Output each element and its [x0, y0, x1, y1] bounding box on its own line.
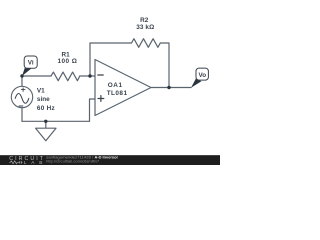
CircuitLab watermark capacitor [19, 161, 23, 164]
wire R1 to op-amp inverting input [80, 75, 95, 77]
wire V1 bottom to ground rail [21, 108, 23, 122]
V1 minus sign [19, 105, 23, 107]
svg-text:V1: V1 [37, 88, 45, 95]
flag Vo box [196, 68, 208, 80]
flag Vi tail [22, 67, 32, 76]
node ground junction [44, 120, 47, 123]
node Vi junction [20, 74, 23, 77]
resistor R1 [51, 72, 80, 81]
flag Vo tail [191, 78, 201, 87]
svg-text:33 kΩ: 33 kΩ [136, 24, 154, 31]
wire op-amp output to Vo [151, 87, 191, 89]
resistor R2 [132, 39, 161, 48]
wire Vi node to R1 [22, 75, 51, 77]
ground symbol triangle [36, 128, 56, 141]
svg-text:TL081: TL081 [107, 90, 128, 97]
voltage source V1 [11, 86, 32, 107]
wire Vi node down to V1 top [21, 76, 23, 86]
op-amp minus input sign [98, 74, 103, 76]
CircuitLab watermark resistor squiggle [9, 161, 18, 164]
footer black bar [0, 155, 220, 165]
svg-text:http://circuitlab.com/c6smlltn: http://circuitlab.com/c6smlltn7 [46, 159, 99, 163]
wire up to op-amp non-inverting input [90, 99, 96, 121]
ground stem [45, 121, 47, 128]
node inverting input junction [88, 74, 91, 77]
svg-text:Vi: Vi [28, 60, 34, 67]
op-amp plus input sign [98, 96, 104, 102]
svg-text:60 Hz: 60 Hz [37, 105, 55, 112]
V1 plus sign [21, 88, 25, 92]
wire feedback right segment (R2 to output node) [160, 43, 169, 88]
svg-text:OA1: OA1 [108, 82, 123, 89]
op-amp U1 triangle [95, 60, 151, 116]
svg-text:100 Ω: 100 Ω [58, 58, 77, 65]
footer bar top highlight [0, 154, 220, 157]
wire ground rail [22, 120, 90, 122]
V1 sine wave [15, 94, 29, 104]
wire feedback left segment (node to R2) [90, 43, 132, 76]
node output junction [167, 86, 170, 89]
svg-text:Vo: Vo [199, 72, 207, 79]
svg-text:sine: sine [37, 96, 50, 103]
flag Vi box [24, 56, 37, 68]
